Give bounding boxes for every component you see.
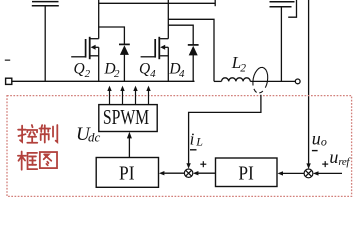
SPWM block [99,105,157,132]
current sensor loop (broken ellipse on L2 wire) [253,67,268,93]
svg-text:L: L [195,135,203,149]
wire: branch to D4 [168,25,193,45]
inductor L2 [214,78,295,82]
svg-text:4: 4 [179,68,185,80]
wire: leg-2 drain riser (Q4 drain to top) [167,0,169,39]
diode D2 [119,44,130,81]
wire: u_ref input [318,172,342,174]
wire: top link from leg-1 to x=215 [99,2,216,4]
wire: S2 output to PI2 [283,172,304,174]
svg-text:PI: PI [119,162,134,185]
summer S1 (current summing junction) [184,169,192,177]
capacitor C2 (output filter, top right) [270,2,295,82]
svg-text:2: 2 [85,68,91,80]
label 控 (hand-drawn) [18,125,37,143]
wire: stub at x=215 from top edge [214,0,216,6]
control block dashed red frame [7,96,352,197]
arrow PI to SPWM [128,138,130,158]
svg-text:Q: Q [139,61,150,78]
PI block (current loop) [96,158,158,188]
gate drive arrows (SPWM outputs) [107,86,150,105]
wire: bottom negative rail [12,80,195,82]
svg-text:PI: PI [238,162,253,185]
transistor Q2 (MOSFET) [71,37,99,82]
plus at S2 [322,161,328,167]
minus at S1 [190,149,197,151]
output terminal (open circle) [295,79,300,84]
svg-text:u: u [312,128,321,148]
svg-text:o: o [321,135,327,149]
svg-text:i: i [190,129,195,148]
label 制 (hand-drawn) [39,125,57,143]
wire: leg-1 drain riser (Q2 drain to top) [98,0,100,39]
svg-text:dc: dc [88,130,101,145]
summer S2 (voltage summing junction) [304,169,313,178]
minus at S2 [312,150,318,152]
wire: PI2 output to S1 [198,172,216,174]
capacitor C1 (input dc-link, top left) [32,2,59,82]
wire: branch to D2 [99,27,125,44]
diode D4 [188,45,199,81]
wire: hook from top edge near C2 [288,0,296,17]
transistor Q4 (MOSFET) [141,37,169,82]
input terminal (square) [6,78,12,84]
PI block 2 (voltage loop) [216,158,278,187]
wire: S1 output to PI1 [164,172,184,174]
wire: link from leg-2 to inductor drop [168,19,214,81]
svg-text:4: 4 [150,68,156,80]
label 图 (hand-drawn) [40,152,57,168]
svg-text:Q: Q [74,61,85,78]
svg-text:u: u [329,147,338,167]
svg-text:2: 2 [240,62,246,74]
svg-text:2: 2 [114,68,120,80]
svg-text:SPWM: SPWM [103,106,149,130]
plus at S1 [200,161,206,167]
wire: i_L feedback from sensor to S1 [189,95,261,164]
label 框 (hand-drawn) [18,151,37,169]
minus polarity mark (dc input) [5,59,10,61]
wire: u_o sense line (to summer S2) [308,0,310,164]
